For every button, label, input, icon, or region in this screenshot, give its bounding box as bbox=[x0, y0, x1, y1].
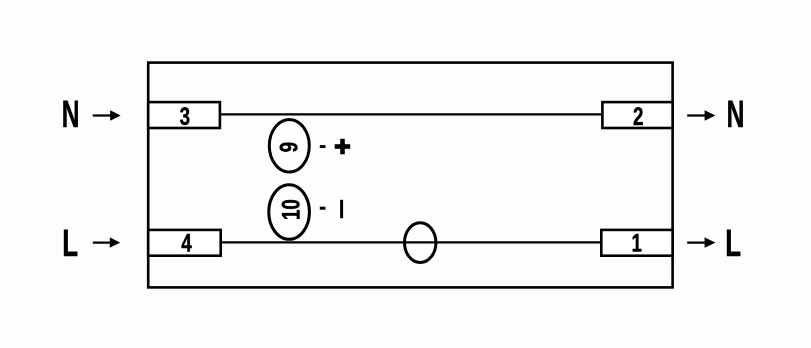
node N output label bbox=[727, 93, 745, 136]
label - + bbox=[320, 139, 350, 155]
pin number 10 (rotated) bbox=[277, 199, 305, 220]
arrow L input bbox=[93, 237, 120, 247]
svg-text:3: 3 bbox=[180, 102, 190, 130]
enclosure outline bbox=[148, 63, 672, 288]
svg-text:10: 10 bbox=[277, 199, 305, 220]
pin number 1 bbox=[631, 229, 641, 257]
svg-text:N: N bbox=[727, 93, 745, 136]
svg-text:L: L bbox=[62, 222, 78, 264]
pin number 9 (rotated) bbox=[275, 142, 303, 152]
label - I bbox=[320, 200, 343, 218]
pin number 4 bbox=[181, 229, 192, 257]
terminal 9 (circled) bbox=[269, 120, 309, 172]
arrow L output bbox=[687, 237, 715, 247]
arrow N output bbox=[687, 110, 715, 120]
pin number 2 bbox=[633, 102, 643, 130]
terminal 3 bbox=[148, 102, 220, 128]
node L output label bbox=[725, 222, 741, 264]
node N input label bbox=[62, 93, 80, 136]
node L input label bbox=[62, 222, 78, 264]
svg-text:L: L bbox=[725, 222, 741, 264]
lamp symbol on wire L bbox=[405, 223, 436, 263]
svg-text:4: 4 bbox=[181, 229, 192, 257]
svg-text:N: N bbox=[62, 93, 80, 136]
terminal 10 (circled) bbox=[269, 185, 310, 240]
arrow N input bbox=[93, 110, 121, 120]
wire L (terminal 4 to terminal 1) bbox=[221, 241, 602, 243]
svg-text:1: 1 bbox=[631, 229, 641, 257]
wire N (terminal 3 to terminal 2) bbox=[220, 113, 603, 115]
terminal 1 bbox=[601, 230, 672, 256]
svg-text:2: 2 bbox=[633, 102, 643, 130]
pin number 3 bbox=[180, 102, 190, 130]
svg-text:9: 9 bbox=[275, 142, 303, 152]
terminal 2 bbox=[602, 102, 672, 128]
terminal 4 bbox=[148, 230, 221, 256]
